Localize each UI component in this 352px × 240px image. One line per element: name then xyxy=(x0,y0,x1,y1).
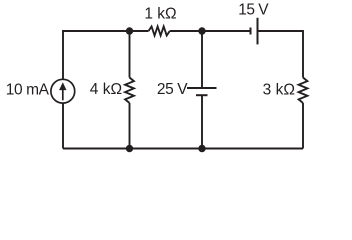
wire: resistor R2 to bottom node C xyxy=(129,103,131,149)
resistor R1 1 kOhm (horizontal) xyxy=(149,27,170,36)
junction node B (top, 1 kOhm right) xyxy=(198,27,205,34)
wire: resistor R3 to bottom-right corner xyxy=(302,103,304,149)
wire: bottom rail xyxy=(63,148,303,150)
wire: battery V2 to top-right corner and down to resistor R3 xyxy=(258,31,304,78)
wire: node B to battery V2 negative plate xyxy=(202,30,251,32)
battery V2 15 V short plate (negative) xyxy=(250,28,252,35)
svg-text:4 kΩ: 4 kΩ xyxy=(90,81,122,98)
svg-text:3 kΩ: 3 kΩ xyxy=(263,82,295,99)
wire: node A down to resistor R2 xyxy=(129,31,131,78)
battery V2 15 V long plate (positive) xyxy=(257,18,259,45)
svg-text:25 V: 25 V xyxy=(157,81,188,98)
wire: node B down to battery V1 xyxy=(201,31,203,88)
current source I1 circle xyxy=(51,79,75,103)
wire: top rail node A to resistor R1 xyxy=(130,30,149,32)
current source I1 arrow shaft xyxy=(62,88,64,100)
battery V1 25 V short plate (negative) xyxy=(196,94,208,96)
resistor R2 4 kOhm (vertical) xyxy=(125,78,134,104)
junction node A (top, 1 kOhm left) xyxy=(126,27,133,34)
svg-text:10 mA: 10 mA xyxy=(6,82,50,99)
wire: resistor R1 to node B xyxy=(170,30,202,32)
wire: top rail left (corner to node A) xyxy=(63,31,130,149)
junction node D (bottom, under V1) xyxy=(198,145,205,152)
resistor R3 3 kOhm (vertical) xyxy=(299,78,308,104)
svg-text:15 V: 15 V xyxy=(238,1,269,18)
battery V1 25 V long plate (positive) xyxy=(187,87,217,89)
svg-text:1 kΩ: 1 kΩ xyxy=(144,6,176,23)
junction node C (bottom, under R2) xyxy=(126,145,133,152)
wire: battery V1 to bottom node D xyxy=(201,95,203,148)
current source I1 arrowhead xyxy=(59,82,66,90)
